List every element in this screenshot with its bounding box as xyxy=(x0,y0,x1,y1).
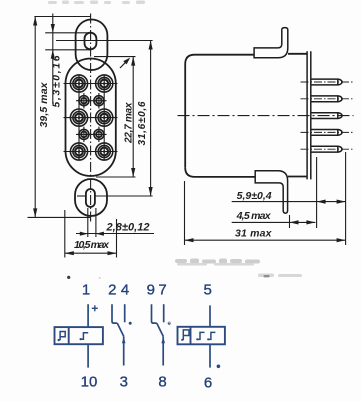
svg-text:5,3±0,16: 5,3±0,16 xyxy=(51,55,62,107)
dim line 5.3 xyxy=(52,14,54,105)
svg-text:10: 10 xyxy=(81,374,98,391)
svg-text:4,5 max: 4,5 max xyxy=(236,210,272,222)
schematic (navy) xyxy=(55,282,225,392)
svg-text:5,9±0,4: 5,9±0,4 xyxy=(237,190,272,202)
pin column line right xyxy=(103,75,105,161)
P symbol coil1 xyxy=(60,332,65,341)
big pin r1c1 xyxy=(70,75,87,92)
pin row 3 center line xyxy=(64,117,118,119)
svg-text:31,6±0,6: 31,6±0,6 xyxy=(137,101,148,145)
contact group 1 xyxy=(112,304,117,323)
dim line 22.7 xyxy=(132,57,134,177)
right view dimensions xyxy=(185,152,346,245)
step symbol coil1 xyxy=(81,333,88,340)
10.5 extension lines xyxy=(64,210,66,258)
right view: can outline xyxy=(185,55,254,168)
pin center lines xyxy=(301,82,354,149)
can center line xyxy=(178,115,354,117)
svg-text:39,5 max: 39,5 max xyxy=(38,81,50,127)
arrowheads left view xyxy=(33,17,153,256)
svg-text:31 max: 31 max xyxy=(235,227,273,239)
bottom ear slot hole xyxy=(86,189,95,207)
svg-text:8: 8 xyxy=(158,374,166,391)
svg-text:5: 5 xyxy=(204,282,212,299)
wire pin6 xyxy=(209,344,211,367)
top ear slot hole xyxy=(85,33,97,50)
pin row 5 center line xyxy=(64,151,118,153)
scan artifacts xyxy=(48,1,302,324)
svg-text:9: 9 xyxy=(147,282,155,299)
bottom mounting ear xyxy=(75,179,107,216)
big pin r3c1 xyxy=(70,109,87,126)
small pin r4c2 xyxy=(94,129,104,139)
small pin r4c1 xyxy=(79,129,89,139)
pin row 1 center line xyxy=(64,83,118,85)
svg-text:10,5 max: 10,5 max xyxy=(74,239,110,251)
small pin r2c1 xyxy=(79,96,89,106)
dimension extension lines, left view xyxy=(28,14,155,258)
coil 2 xyxy=(178,327,225,345)
dim line 39.5 xyxy=(34,17,36,218)
pin row 4 center line xyxy=(76,133,107,135)
svg-text:4: 4 xyxy=(121,282,129,299)
small pin vertical center lines xyxy=(83,93,85,109)
pin column line left xyxy=(78,75,80,161)
wire pin10 xyxy=(87,344,89,367)
top bracket xyxy=(254,28,288,58)
relay body outline (bottom view) xyxy=(66,59,116,177)
svg-text:1: 1 xyxy=(82,282,90,299)
2.8 extension lines xyxy=(87,208,89,237)
big pin r5c2 xyxy=(96,143,113,160)
svg-text:22,7 max: 22,7 max xyxy=(124,102,135,144)
leader arrow xyxy=(120,60,128,68)
svg-text:3: 3 xyxy=(120,374,128,391)
wire pin5 xyxy=(209,305,211,326)
flange xyxy=(306,51,308,179)
wire pin1 xyxy=(87,304,89,327)
svg-text:2: 2 xyxy=(108,282,116,299)
plus sign xyxy=(92,307,98,309)
big pin r3c2 xyxy=(96,109,113,126)
P symbol coil2 xyxy=(183,330,189,340)
top mounting ear xyxy=(76,20,108,71)
dim line 31.6 xyxy=(150,41,152,197)
left view center axis xyxy=(90,14,92,223)
big pin r5c1 xyxy=(70,143,87,160)
coil 1 xyxy=(55,327,103,344)
pin row 2 center line xyxy=(76,100,107,102)
step symbols coil2 xyxy=(198,332,205,339)
contact group 2 xyxy=(152,304,157,323)
pin labels xyxy=(81,282,213,392)
2.8 dim line xyxy=(76,233,154,235)
svg-text:7: 7 xyxy=(158,282,166,299)
svg-text:6: 6 xyxy=(204,375,212,392)
small pin r2c2 xyxy=(94,96,104,106)
dimension texts xyxy=(38,55,273,251)
10.5 dim line xyxy=(65,252,117,254)
pins xyxy=(311,79,342,152)
bottom bracket xyxy=(255,171,287,214)
big pin r1c2 xyxy=(96,75,113,92)
svg-text:2,8±0,12: 2,8±0,12 xyxy=(106,221,150,233)
